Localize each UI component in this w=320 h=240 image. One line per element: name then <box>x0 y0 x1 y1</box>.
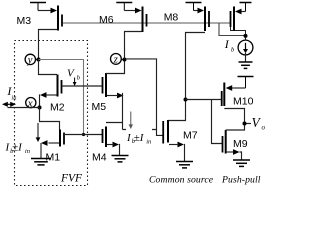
transistor bias PMOS (diode-connected) <box>231 7 242 32</box>
wire input line <box>8 107 40 109</box>
ground M4 <box>112 156 129 162</box>
svg-text:z: z <box>113 55 118 66</box>
svg-text:M7: M7 <box>183 130 198 142</box>
transistor M9 (NMOS mirrored) <box>223 130 240 155</box>
wire M9 source to ground <box>240 152 242 160</box>
wire M7 source to ground <box>183 145 186 162</box>
current arrow mid <box>130 112 132 125</box>
label Vo <box>252 115 266 132</box>
wire M6 drain to node Z <box>125 32 142 58</box>
wire Ib to ground <box>245 53 247 62</box>
wire Vb line M2-M5 gates <box>62 85 103 87</box>
junction Y-gate line <box>82 133 85 136</box>
junction diode node <box>244 34 248 38</box>
label Ib <box>224 37 235 53</box>
terminal x <box>26 97 36 109</box>
svg-text:in: in <box>25 148 30 155</box>
svg-text:y: y <box>27 55 33 66</box>
wire bias drain stub <box>233 30 235 31</box>
wire node A to M7 gate <box>123 129 157 131</box>
wire to M10 gate <box>186 99 223 101</box>
power symbol bias PMOS <box>240 3 252 12</box>
transistor M3 (PMOS) <box>51 6 63 31</box>
svg-text:M6: M6 <box>99 14 114 26</box>
wire gate line branch to diode node <box>219 23 246 36</box>
wire M3 drain to node Y <box>39 30 58 60</box>
wire M9 drain to Vo <box>226 124 245 131</box>
power symbol M6 <box>116 3 132 11</box>
wire M5 source down to node A <box>121 94 124 130</box>
current source Ib <box>238 40 253 55</box>
svg-text:Push-pull: Push-pull <box>221 175 261 186</box>
svg-text:M10: M10 <box>233 96 254 108</box>
transistor M6 (PMOS) <box>135 7 147 33</box>
transistor M7 (NMOS) <box>163 120 184 147</box>
wire M1 source to ground <box>40 143 42 158</box>
current arrow left <box>37 123 39 138</box>
wire M1/M4 gate line <box>64 134 103 136</box>
node Z junction <box>123 58 127 62</box>
wire M5 drain to node Z <box>106 60 125 74</box>
svg-text:M9: M9 <box>233 138 248 150</box>
wire node X to M1 drain <box>40 108 60 131</box>
power symbol M3 <box>30 3 46 11</box>
label Ib+Iin left <box>5 142 30 155</box>
svg-text:in: in <box>146 138 151 145</box>
node Y junction <box>37 58 41 62</box>
wire node Z to M7 gate column <box>125 59 164 135</box>
svg-text:M2: M2 <box>50 102 65 114</box>
transistor M10 (PMOS mirrored) <box>222 83 233 107</box>
ground M9 <box>233 160 250 166</box>
svg-text:in: in <box>11 94 16 101</box>
svg-text:±I: ±I <box>134 132 145 144</box>
svg-text:±I: ±I <box>12 142 23 154</box>
wire node Y to M1/M4 gates <box>39 60 84 135</box>
wire node A to M4 drain <box>106 122 123 124</box>
svg-text:Common source: Common source <box>149 175 214 186</box>
transistor M8 (PMOS) <box>198 7 210 32</box>
power symbol M10 <box>238 77 254 89</box>
junction Vo <box>243 122 247 126</box>
wire M2 drain to node X <box>39 95 42 108</box>
transistor M4 (NMOS gate-left) <box>103 127 120 148</box>
transistor M5 (NMOS mirrored-gate-left) <box>103 73 124 98</box>
ground Ib <box>239 62 253 68</box>
label Vb with arrow <box>67 68 81 87</box>
svg-text:M4: M4 <box>92 152 107 164</box>
input double arrow <box>4 103 14 105</box>
wire M2 source to node Y <box>39 60 58 75</box>
power symbol M8 <box>186 3 202 11</box>
label Ib+Iin mid <box>126 128 152 145</box>
label Iin <box>6 84 16 101</box>
junction class-AB node <box>184 98 188 102</box>
svg-text:FVF: FVF <box>60 173 83 185</box>
terminal y <box>25 54 35 66</box>
svg-text:M3: M3 <box>17 15 32 27</box>
wire M8 drain to class-AB node <box>168 33 205 121</box>
svg-text:M8: M8 <box>164 12 179 24</box>
transistor M2 (NMOS) <box>40 75 62 98</box>
FVF dotted box <box>15 41 88 186</box>
terminal z <box>111 54 122 66</box>
wire Y stub <box>35 59 39 61</box>
wire mirror gate line M3-M6-M8-bias <box>63 22 231 24</box>
wire M4 source to ground <box>118 145 121 156</box>
svg-text:M5: M5 <box>92 101 107 113</box>
ground M7 <box>176 162 193 168</box>
transistor M1 (NMOS) <box>41 130 64 147</box>
wire Z stub <box>122 59 125 61</box>
svg-text:o: o <box>262 124 266 132</box>
wire M10 drain to Vo <box>224 109 244 124</box>
wire to M9 gate <box>212 100 223 144</box>
node X junction <box>38 106 42 110</box>
wire bias pmos diode connection <box>231 27 246 40</box>
ground M1 <box>31 159 51 165</box>
